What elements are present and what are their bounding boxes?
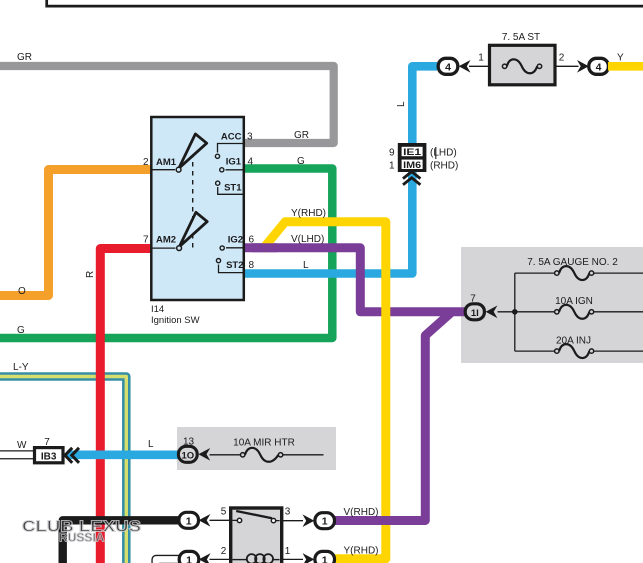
svg-text:RUSSIA: RUSSIA	[59, 531, 105, 545]
border frame of upper block	[47, 0, 643, 6]
svg-text:G: G	[297, 156, 305, 167]
svg-text:3: 3	[285, 507, 291, 518]
svg-text:V(LHD): V(LHD)	[291, 234, 324, 245]
connector 1 (pin3)	[315, 513, 335, 529]
svg-text:L-Y: L-Y	[13, 362, 29, 373]
fuse element	[507, 59, 537, 73]
svg-text:1: 1	[285, 546, 291, 557]
svg-text:7: 7	[44, 437, 50, 448]
relay coil	[232, 559, 247, 561]
svg-text:ST1: ST1	[224, 183, 242, 194]
svg-text:W: W	[17, 440, 27, 451]
svg-text:R: R	[85, 271, 96, 278]
ACC contact line	[218, 144, 245, 153]
svg-text:1: 1	[322, 516, 328, 528]
svg-text:3: 3	[247, 132, 253, 143]
connector 1 (pin5)	[179, 512, 199, 528]
wire Y yellow from IG2 main run	[262, 222, 386, 559]
svg-text:1: 1	[389, 161, 395, 172]
svg-text:1I: 1I	[471, 308, 479, 319]
svg-text:5: 5	[221, 507, 227, 518]
gray box 10A MIR HTR junction block	[177, 427, 336, 470]
fuse 7.5A ST box	[490, 45, 556, 85]
connector 4 right	[589, 58, 609, 74]
wire G green from IG1	[0, 169, 332, 339]
svg-text:(RHD): (RHD)	[430, 161, 458, 172]
svg-text:1: 1	[186, 554, 192, 563]
svg-text:(LHD): (LHD)	[430, 148, 457, 159]
svg-text:1: 1	[186, 515, 192, 527]
relay switch contacts	[236, 511, 272, 518]
pin 2 lead	[555, 65, 579, 67]
svg-text:I14: I14	[151, 304, 164, 315]
pin 1 lead	[469, 65, 490, 67]
arrow into connector 1I	[486, 306, 498, 319]
wire L-Y teal with yellow stripe	[0, 377, 126, 563]
svg-text:ACC: ACC	[221, 132, 242, 143]
svg-text:7: 7	[470, 294, 476, 305]
svg-text:10A IGN: 10A IGN	[555, 296, 593, 307]
svg-text:AM2: AM2	[156, 235, 176, 246]
wire W white outline to relay pin2 connector	[156, 559, 180, 563]
svg-text:IE1: IE1	[403, 147, 421, 157]
svg-text:IM6: IM6	[403, 160, 421, 170]
svg-text:4: 4	[596, 61, 602, 73]
gray box gauge fuse block	[461, 247, 643, 363]
connector 1 (pin2)	[179, 551, 199, 563]
svg-text:GR: GR	[17, 52, 32, 63]
svg-text:1: 1	[322, 554, 328, 563]
svg-text:2: 2	[221, 546, 227, 557]
AM2 wiper arm	[179, 212, 207, 246]
ST1 contact line	[218, 187, 244, 194]
svg-text:2: 2	[143, 157, 149, 168]
svg-text:IG2: IG2	[228, 235, 243, 246]
relay box	[231, 508, 282, 563]
svg-text:7. 5A GAUGE NO. 2: 7. 5A GAUGE NO. 2	[527, 257, 618, 268]
junction dot	[512, 309, 518, 315]
svg-text:4: 4	[248, 157, 254, 168]
chevron under IE1/IM6	[403, 172, 420, 185]
svg-text:Y(RHD): Y(RHD)	[344, 546, 379, 557]
IG1 contact line	[226, 169, 245, 171]
svg-text:2: 2	[559, 53, 565, 64]
wire L blue from IB3 to 1O	[67, 450, 180, 459]
AM1 wiper arm	[179, 134, 207, 168]
fuse 20A INJ	[515, 350, 555, 352]
wire V purple branch to V(RHD)	[335, 312, 452, 521]
svg-text:Y(RHD): Y(RHD)	[291, 208, 326, 219]
svg-text:Ignition SW: Ignition SW	[151, 315, 200, 326]
svg-text:V(RHD): V(RHD)	[344, 507, 379, 518]
IG2 contact line	[226, 247, 244, 249]
connector 1O	[198, 448, 210, 461]
fuse 7.5A GAUGE NO.2	[515, 272, 555, 274]
svg-text:10A MIR HTR: 10A MIR HTR	[233, 438, 295, 449]
svg-text:L: L	[396, 101, 407, 107]
wire R red to AM2	[100, 249, 151, 563]
svg-text:L: L	[148, 439, 154, 450]
svg-text:9: 9	[389, 148, 395, 159]
svg-text:7. 5A ST: 7. 5A ST	[502, 32, 540, 43]
svg-text:6: 6	[249, 235, 255, 246]
connector 1I	[465, 304, 484, 320]
connector 1 (pin1)	[315, 551, 335, 563]
svg-text:G: G	[17, 325, 25, 336]
wire V purple over yellow tip	[252, 243, 277, 252]
svg-text:Y: Y	[617, 53, 624, 64]
svg-text:O: O	[18, 286, 26, 297]
ignition switch I14 body	[151, 117, 244, 300]
svg-text:1: 1	[478, 53, 484, 64]
ST2 contact line	[219, 265, 245, 273]
mechanical link dashed	[192, 153, 194, 249]
svg-text:IG1: IG1	[226, 157, 242, 168]
svg-text:8: 8	[249, 260, 255, 271]
wire W white outline to IB3	[0, 450, 35, 459]
wire O orange to AM1	[0, 170, 151, 296]
svg-text:20A INJ: 20A INJ	[556, 336, 591, 347]
svg-text:L: L	[303, 260, 309, 271]
wire Y yellow right exit	[608, 62, 643, 71]
stray tick	[435, 147, 437, 159]
fuse 10A IGN	[498, 311, 555, 313]
fuse element MIR HTR	[210, 454, 241, 456]
bus line	[514, 273, 516, 351]
svg-text:ST2: ST2	[226, 260, 243, 271]
connector IB3	[35, 448, 64, 463]
wire L blue from ST2 to fuse 7.5A ST	[244, 66, 437, 273]
wire V purple main from IG2 to 1I	[244, 248, 466, 312]
svg-text:1O: 1O	[181, 450, 194, 461]
double chevron at IB3	[65, 448, 79, 463]
svg-text:4: 4	[445, 61, 451, 73]
wire GR gray from ACC	[0, 66, 334, 143]
arrow into connector 4 left	[459, 60, 471, 73]
svg-text:7: 7	[143, 235, 149, 246]
wire L-Y stripe	[0, 377, 126, 563]
arrow into connector 4 right	[577, 60, 589, 73]
svg-text:IB3: IB3	[41, 451, 57, 462]
wire B black to relay pin5	[63, 520, 179, 563]
svg-text:AM1: AM1	[156, 157, 177, 168]
connector 4 left	[438, 58, 458, 74]
connector IE1/IM6	[398, 143, 427, 172]
svg-text:GR: GR	[294, 130, 309, 141]
